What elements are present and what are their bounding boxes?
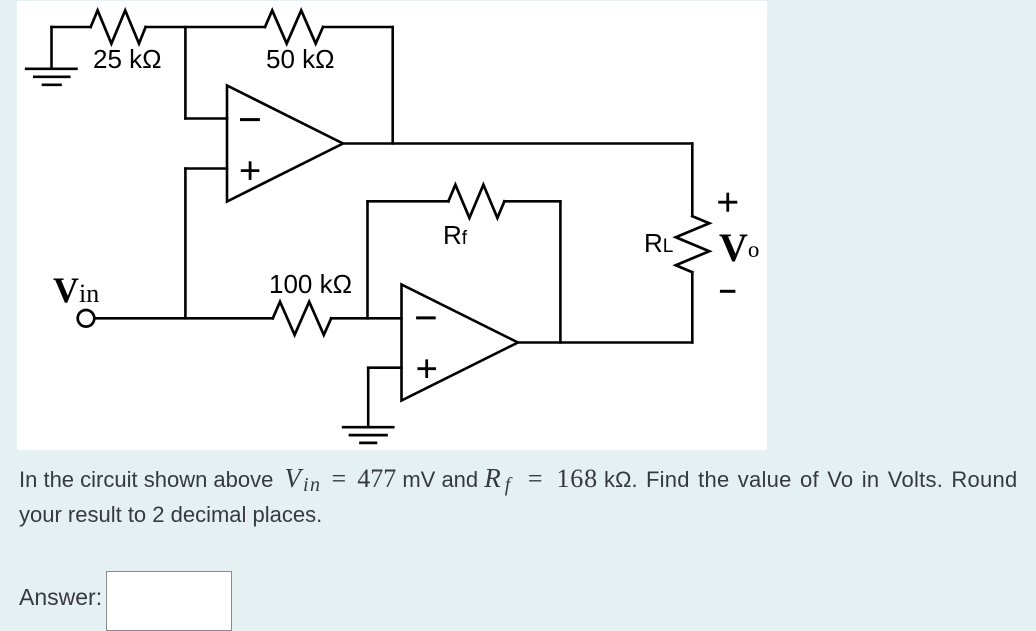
wire node A down to U1 inverting <box>184 27 187 119</box>
wire U2 non-inverting down to ground <box>367 368 370 426</box>
wire U1 non-inverting down to Vin line <box>184 169 187 319</box>
wire ground to R1 <box>52 26 91 29</box>
answer input box <box>106 571 232 631</box>
label 50 kOhm <box>266 46 335 72</box>
op-amp U2 <box>402 285 519 401</box>
wire U2 output <box>518 341 692 344</box>
wire RL bottom lead <box>691 272 694 342</box>
wire Rf to right corner <box>504 200 560 203</box>
resistor R3 100k <box>273 302 331 335</box>
wire into U1 inverting input <box>185 117 227 120</box>
wire U1 output <box>343 142 692 145</box>
node Vin terminal <box>78 310 95 327</box>
wire feedback top left <box>368 200 449 203</box>
resistor Rf <box>448 185 504 218</box>
label minus of Vo <box>721 290 734 293</box>
wire R2 to corner <box>323 26 393 29</box>
label plus of Vo <box>720 194 736 210</box>
resistor RL (vertical) <box>676 216 710 272</box>
question text <box>19 462 1031 532</box>
label RL <box>644 230 673 256</box>
resistor R1 25k <box>91 10 146 43</box>
ground G2 <box>343 427 393 443</box>
op-amp U1 <box>227 86 343 202</box>
answer label <box>19 584 102 611</box>
resistor R2 50k <box>265 10 323 43</box>
wire R3 to U2 inverting <box>331 317 401 320</box>
label 100 kOhm <box>269 271 352 297</box>
ground G1 top-left <box>26 27 76 85</box>
wire RL top lead <box>691 144 694 217</box>
wire Vin to R3 <box>95 317 273 320</box>
wire feedback right vertical <box>559 201 562 342</box>
wire into U2 non-inverting input <box>368 366 401 369</box>
wire feedback left vertical <box>366 201 369 318</box>
wire feedback down to U1 output <box>391 27 394 144</box>
label Rf <box>443 222 467 248</box>
label Vo <box>719 228 759 268</box>
wire R1 to R2 <box>146 26 265 29</box>
label Vin <box>53 272 99 308</box>
wire into U1 non-inverting input <box>185 167 227 170</box>
label 25 kOhm <box>93 46 162 72</box>
